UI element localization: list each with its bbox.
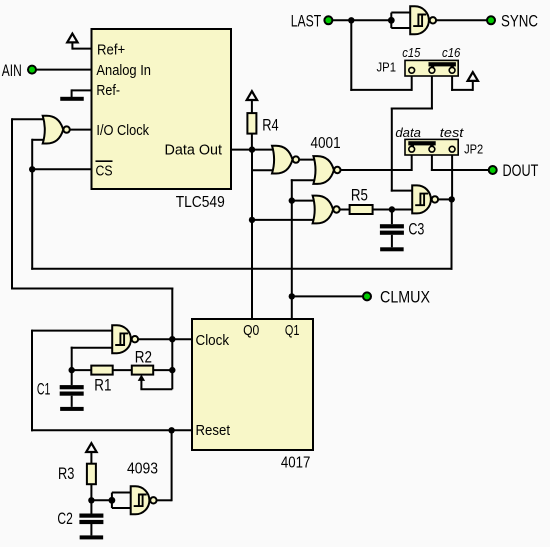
resistor R5 [350,205,373,214]
wire R2 to clock rail [153,369,173,371]
wire NOR4 output to I/O Clock [70,129,92,131]
wire left rail x=12 down [11,118,13,289]
wire Q1 rail to NOR2 bottom input [291,179,293,319]
wire NAND3 bottom input to R1/C1 junction [71,347,114,349]
wire LAST junction down to JP1 pin 1 [350,19,352,91]
svg-text:R1: R1 [94,377,111,395]
wire reset rail [31,330,33,432]
svg-text:CS: CS [96,164,113,180]
wire NOR1 output to NOR2 input [299,159,316,161]
wire LAST to NAND inputs [328,19,391,21]
wire NAND3 output to 4017 Clock [138,338,192,340]
wire NAND4 output up to Reset [157,499,171,501]
wire NOR2 output to JP2 pin 1 [340,169,411,171]
svg-text:test: test [440,125,465,140]
vcc arrow at JP1 [468,72,478,81]
ground symbol at Ref- [72,89,92,91]
junction R5 / C3 [389,206,395,212]
svg-text:4093: 4093 [127,461,158,478]
wire Q1 junction to CLMUX [292,295,367,297]
svg-text:JP2: JP2 [464,141,483,156]
IC 4017 [192,319,313,450]
output CLMUX [363,292,371,300]
svg-text:4017: 4017 [281,455,311,472]
wire C2 top [90,500,92,513]
svg-text:R4: R4 [262,116,278,134]
input AIN [28,66,36,74]
wire R5 to NAND2 bottom input [373,209,415,211]
svg-text:C1: C1 [37,380,51,398]
nor gate U1b 4001 [313,156,334,184]
wire NAND3 top input from reset rail [32,330,114,332]
wire R2 wiper [140,377,142,389]
wire JP1 pin 2 down to NAND2 top input [431,74,433,110]
output SYNC [487,16,495,24]
junction clock node [169,336,175,342]
vcc arrow at R4 [247,91,257,100]
wire R4 bottom to Data Out junction [251,134,253,150]
junction Data Out / R4 [249,146,255,152]
resistor R1 [91,366,112,375]
svg-text:Q0: Q0 [243,323,259,339]
nor gate U1a 4001 [272,146,293,174]
wire NAND4 input tie bar [111,493,113,509]
wire R1 to junction [72,369,92,371]
wire junction to NAND4 inputs [90,499,112,501]
output DOUT [489,166,497,174]
vcc arrow at Ref+ [67,34,77,43]
capacitor C3 [380,224,404,228]
nand gate U2b test [412,185,431,213]
svg-text:Data Out: Data Out [165,143,223,159]
wire NAND1 output to SYNC [436,19,491,21]
wire NOR3 output to R5 [339,209,350,211]
wire C3 to junction [391,210,393,225]
wire R1 to R2 [113,369,132,371]
svg-text:R5: R5 [351,186,368,204]
ground at C2 [80,535,104,539]
junction Q0 / NOR3 input [249,217,255,223]
square dot NAND4 inputs [109,497,116,504]
square dot NAND1 inputs [388,17,395,24]
wire C1 top [71,370,73,385]
nand gate U2a sync [410,6,429,34]
IC TLC549 [92,29,232,189]
nor gate U1c 4001 [313,196,334,224]
svg-text:Analog In: Analog In [96,63,151,79]
svg-text:AIN: AIN [2,61,22,80]
junction Q1 / CLMUX [289,293,295,299]
wire AIN to Analog In [32,69,92,71]
svg-text:4001: 4001 [311,135,341,152]
wire Data Out junction to NOR1 bottom input [251,149,253,172]
nand gate U2c oscillator [112,325,131,353]
jumper JP1 [405,60,458,76]
wire CS rail x=32 down and right to schmitt output [31,139,33,270]
junction R1 / C1 [69,367,75,373]
svg-text:Q1: Q1 [285,323,300,339]
input LAST [324,16,332,24]
wire NOR3 top input from Q1 rail [292,200,315,202]
wire Data Out to NOR1 [231,149,279,151]
nand gate U2d reset [131,486,150,514]
svg-text:C3: C3 [408,220,424,238]
wire NOR3 bottom input from Q0 rail [251,219,315,221]
svg-text:C2: C2 [57,510,72,528]
resistor R2 trimmer [132,366,153,375]
svg-text:c16: c16 [442,45,461,60]
svg-text:SYNC: SYNC [501,12,538,31]
wire NOR4 bottom input [32,139,46,141]
jumper JP2 [405,139,458,155]
capacitor C1 [60,385,84,389]
capacitor C2 [79,514,103,518]
wire NAND1 input tie bar [390,13,392,28]
wire clock rail x=172 down [171,339,173,389]
wire R3 to junction [90,484,92,501]
ground at C3 [380,247,404,251]
wire C3 to ground [391,235,393,248]
wire JP1 pin 3 to vcc arrow [451,74,453,91]
junction NAND2 output [449,196,455,202]
wire Data Out rail down to 4017 Q0 [251,170,253,319]
svg-text:c15: c15 [402,45,421,60]
svg-text:TLC549: TLC549 [176,194,225,211]
svg-text:Ref-: Ref- [96,83,120,99]
svg-text:JP1: JP1 [377,60,397,75]
wire JP2 pin 2 to DOUT [431,153,433,171]
svg-text:Ref+: Ref+ [97,43,125,59]
wire CS pin [32,168,91,170]
svg-text:data: data [395,125,421,140]
wire JP2 pin 3 down to NAND2 output junction [451,153,453,199]
svg-text:DOUT: DOUT [503,161,539,180]
svg-text:LAST: LAST [291,12,321,31]
wire NAND2 output junction [438,198,452,200]
wire C1 to ground [71,396,73,407]
svg-text:R2: R2 [135,348,152,366]
svg-text:CLMUX: CLMUX [380,288,430,307]
wire NOR4 top input from left rail [12,118,46,120]
junction CS pin [29,166,35,172]
svg-text:Clock: Clock [196,332,230,349]
svg-text:Reset: Reset [196,422,231,439]
ground at C1 [60,407,84,411]
junction R3 / C2 [88,497,94,503]
resistor R3 [87,464,96,485]
svg-text:I/O Clock: I/O Clock [96,123,149,139]
junction R2 right [169,367,175,373]
vcc arrow at R3 [86,443,96,452]
svg-text:R3: R3 [58,465,74,483]
resistor R4 [247,113,256,134]
junction LAST [348,17,354,23]
nor gate U1d I/O clock inverter [43,116,64,144]
wire C2 to ground [90,524,92,536]
junction reset node [168,427,174,433]
junction Q1 / NOR3 input [289,197,295,203]
